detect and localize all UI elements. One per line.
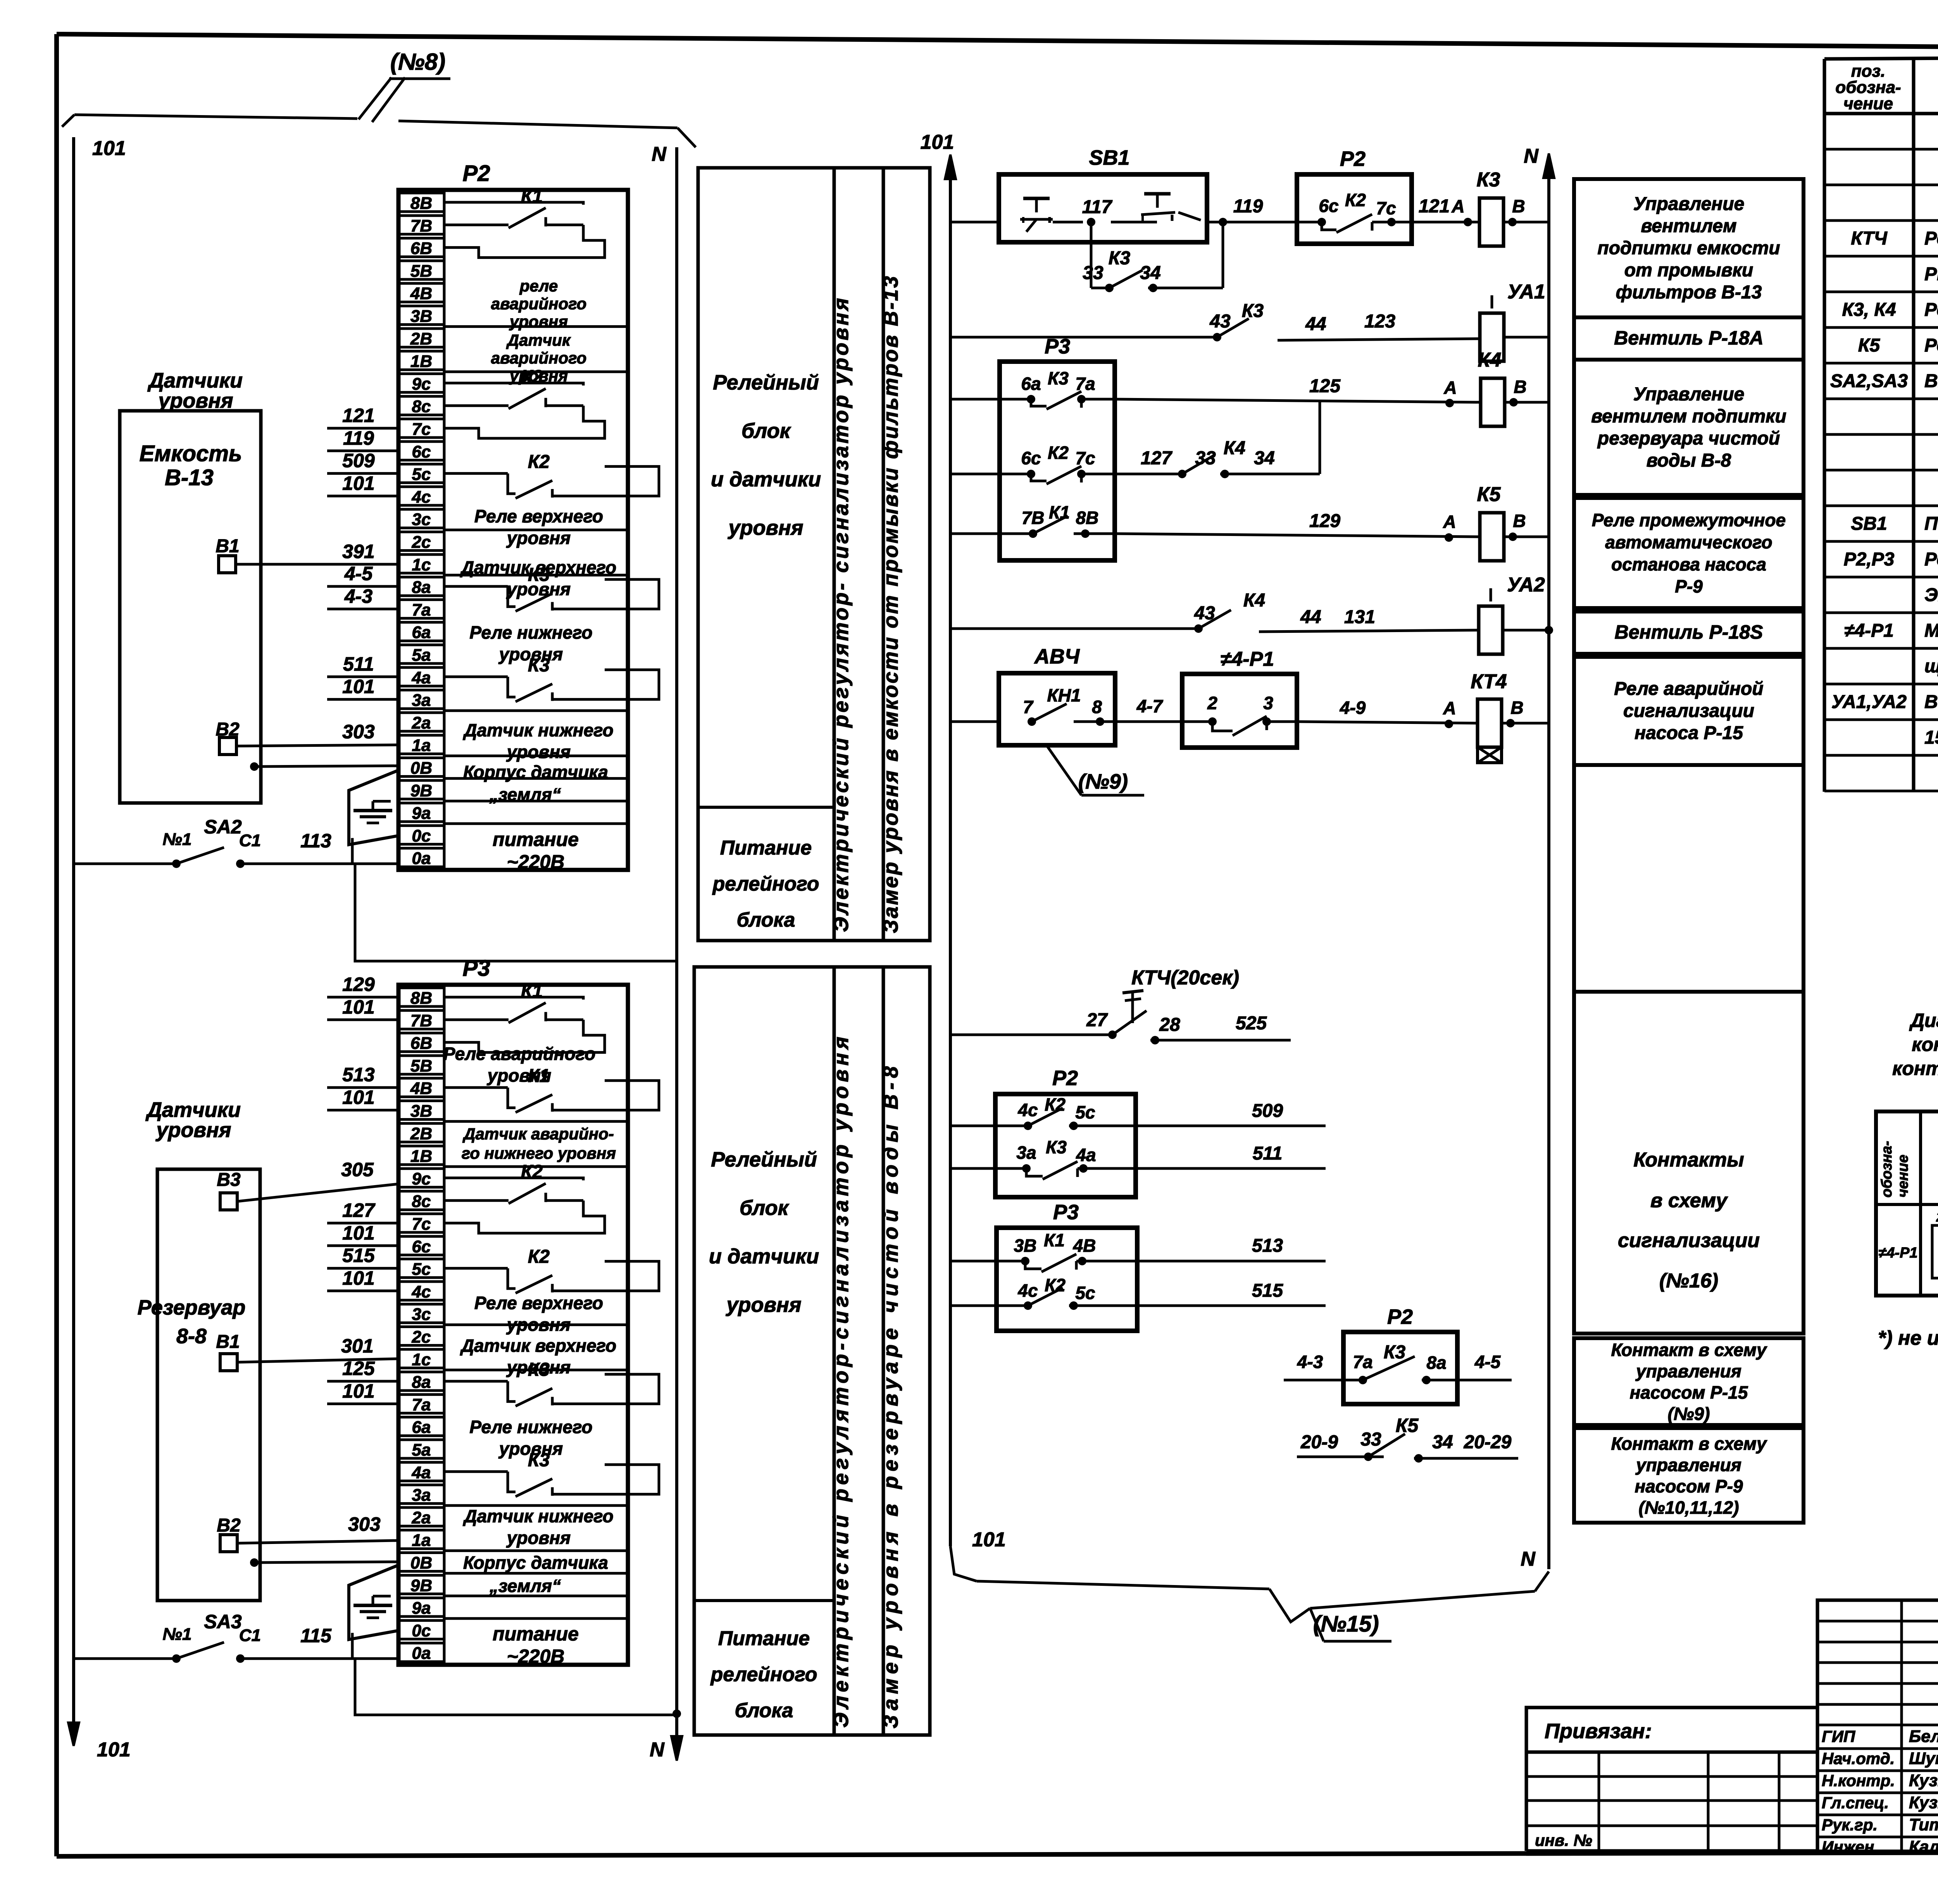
svg-text:вентилем: вентилем [1641, 216, 1737, 236]
svg-text:509: 509 [342, 450, 375, 472]
wire 121 A [1412, 196, 1472, 226]
svg-text:Реле нижнего: Реле нижнего [469, 1417, 592, 1437]
svg-text:уровня: уровня [506, 1315, 571, 1335]
svg-text:515: 515 [342, 1245, 375, 1266]
svg-text:(№16): (№16) [1659, 1270, 1718, 1292]
svg-text:129: 129 [1309, 511, 1340, 531]
svg-text:уровня: уровня [157, 389, 233, 412]
wire 121 [327, 405, 398, 428]
svg-text:509: 509 [1252, 1101, 1283, 1121]
svg-text:РКВ11-33-112УХЛЧ, 0...30сек, ~: РКВ11-33-112УХЛЧ, 0...30сек, ~220В [1924, 264, 1938, 284]
level sensors label (lower) [145, 1098, 241, 1142]
svg-text:К1: К1 [521, 186, 543, 207]
relay contact К1 [444, 186, 605, 257]
svg-text:4с: 4с [412, 1282, 431, 1301]
wire 515 [1137, 1280, 1326, 1306]
svg-text:303: 303 [342, 721, 375, 743]
svg-text:Белоус: Белоус [1909, 1727, 1938, 1746]
sensor B2 (lower) [217, 1513, 398, 1552]
svg-text:113: 113 [300, 830, 331, 852]
svg-text:сигнализации: сигнализации [1618, 1229, 1760, 1252]
svg-text:УА1,УА2: УА1,УА2 [1831, 692, 1907, 712]
svg-text:К1: К1 [1044, 1230, 1065, 1250]
svg-text:5В: 5В [410, 262, 432, 281]
svg-text:В3: В3 [217, 1170, 241, 1190]
wire 513 [327, 1064, 398, 1087]
svg-text:SA2: SA2 [204, 816, 241, 838]
svg-text:301: 301 [341, 1335, 373, 1357]
Р3 label питание [493, 1623, 579, 1667]
svg-text:6с: 6с [1021, 448, 1041, 468]
svg-text:N: N [650, 1739, 665, 1761]
Р3 label Датчик нижнего [462, 1506, 613, 1548]
relay contact К2 [444, 452, 659, 498]
svg-text:и датчики: и датчики [711, 468, 821, 491]
svg-text:≠4-Р1: ≠4-Р1 [1221, 648, 1274, 670]
svg-text:2: 2 [1207, 693, 1217, 713]
function box: Управление [1574, 360, 1804, 495]
svg-text:2а: 2а [412, 1508, 431, 1527]
svg-text:Р-9: Р-9 [1675, 576, 1703, 596]
function box: Реле аварийной [1574, 657, 1804, 765]
relay contact К2 [444, 367, 605, 438]
svg-text:0В: 0В [410, 759, 432, 778]
relay contact К2 [444, 1162, 605, 1233]
svg-text:8с: 8с [412, 1192, 431, 1211]
svg-text:33: 33 [1360, 1429, 1381, 1450]
svg-text:К3: К3 [528, 1450, 550, 1470]
svg-text:Питание: Питание [720, 837, 812, 859]
svg-text:Выключатель пакетный ПВ1-16,00: Выключатель пакетный ПВ1-16,00У3Б, исп. … [1924, 371, 1938, 391]
svg-text:5В: 5В [410, 1056, 432, 1075]
table row: Вентиль электромагнитный [1831, 692, 1938, 712]
svg-text:В: В [1514, 377, 1526, 397]
wire 513 [1137, 1235, 1326, 1261]
svg-text:Регулятор-сигнализатор уровня: Регулятор-сигнализатор уровня [1924, 549, 1938, 570]
svg-text:Датчик нижнего: Датчик нижнего [462, 720, 613, 740]
wire 119 [327, 427, 398, 451]
relay coil К4 [1478, 349, 1549, 426]
relay-sensor unit Р2 outline [398, 161, 628, 870]
svg-text:121: 121 [342, 405, 374, 426]
svg-text:№1: №1 [163, 1625, 192, 1644]
column bar: Замер уровня [879, 967, 930, 1735]
svg-text:УА1: УА1 [1507, 281, 1545, 303]
svg-text:уровня: уровня [155, 1118, 231, 1142]
ground symbol [353, 801, 392, 823]
svg-text:блок: блок [741, 419, 791, 443]
column bar: Замер уровня [879, 168, 930, 941]
svg-text:2с: 2с [412, 533, 431, 552]
wire 127 with contact К4 33-34 [1115, 402, 1320, 478]
wire 127 [327, 1199, 398, 1223]
function box: Контакт в схему [1574, 1338, 1804, 1425]
svg-text:3В: 3В [1014, 1235, 1037, 1256]
ground bracket [349, 1565, 398, 1640]
svg-text:4а: 4а [1076, 1145, 1096, 1165]
svg-text:101: 101 [342, 1267, 374, 1289]
ground bracket [349, 770, 398, 845]
svg-text:101: 101 [97, 1739, 131, 1761]
svg-text:511: 511 [343, 653, 374, 675]
svg-text:ГИП: ГИП [1822, 1727, 1855, 1745]
svg-text:Датчики: Датчики [145, 1098, 241, 1122]
relay-sensor unit Р3 outline [398, 956, 628, 1665]
svg-text:управления: управления [1635, 1455, 1741, 1475]
svg-text:5а: 5а [412, 646, 431, 665]
svg-text:С1: С1 [239, 831, 261, 850]
svg-text:К4: К4 [1478, 349, 1502, 371]
svg-text:119: 119 [1233, 196, 1263, 217]
Р2 terminal boxes [398, 193, 444, 868]
sensor common wire junction (lower) [250, 1558, 398, 1567]
svg-text:обозна-: обозна- [1879, 1141, 1895, 1198]
diagram header: Диаграмма замыкания контактов электроконтактного манометра [1892, 1010, 1938, 1079]
svg-text:К2: К2 [1345, 190, 1366, 210]
svg-text:7В: 7В [410, 1011, 432, 1030]
svg-text:511: 511 [1253, 1143, 1283, 1164]
svg-text:воды В-8: воды В-8 [1647, 450, 1731, 471]
return wire to bus N [355, 1659, 677, 1715]
svg-text:Р3: Р3 [463, 956, 490, 981]
svg-text:4с: 4с [412, 488, 431, 507]
svg-text:В: В [1513, 511, 1526, 531]
svg-text:*) не используется: *) не используется [1878, 1327, 1938, 1349]
wire 101 to SB1 [950, 221, 999, 224]
svg-text:УА2: УА2 [1507, 574, 1545, 596]
svg-text:6В: 6В [410, 239, 432, 258]
svg-text:1а: 1а [412, 1531, 431, 1550]
svg-text:А: А [1443, 377, 1457, 398]
sensor B2 (upper) [216, 719, 398, 755]
svg-text:33: 33 [1083, 263, 1103, 283]
svg-text:А: А [1443, 698, 1456, 718]
svg-text:7а: 7а [412, 600, 431, 619]
svg-text:Вентиль электромагнитный: Вентиль электромагнитный [1924, 692, 1938, 712]
bus 101 lower bend and label [950, 1528, 1006, 1581]
svg-text:К5: К5 [1477, 483, 1501, 506]
svg-text:Диаграмма замыкания: Диаграмма замыкания [1909, 1010, 1938, 1031]
relay contact К1 [444, 981, 605, 1052]
svg-text:К4: К4 [1243, 590, 1265, 611]
svg-text:К2: К2 [521, 367, 543, 388]
svg-text:К3: К3 [1046, 1137, 1067, 1157]
function box: Вентиль Р-18А [1574, 317, 1804, 360]
wire with contact К4 43-44 and wire 131 [950, 590, 1479, 633]
svg-text:515: 515 [1252, 1280, 1283, 1301]
svg-text:43: 43 [1194, 603, 1215, 624]
svg-text:Р2: Р2 [463, 161, 490, 186]
pressure gauge contact block ≠4-Р1 [1182, 648, 1297, 748]
svg-text:„земля“: „земля“ [489, 1576, 561, 1596]
wire 4-7 [1115, 696, 1182, 722]
contact state diagram in column 2 [1932, 1207, 1938, 1283]
Р3 label Реле нижнего [469, 1417, 592, 1459]
relay contact К3 [444, 655, 659, 701]
function box: Управление [1574, 179, 1804, 317]
svg-text:101: 101 [342, 1380, 374, 1402]
svg-text:Манометр показывающий сигнализ: Манометр показывающий сигнализирую- [1924, 620, 1938, 641]
svg-text:Контакт в схему: Контакт в схему [1611, 1340, 1767, 1360]
svg-text:7В: 7В [410, 216, 432, 235]
svg-text:34: 34 [1254, 448, 1274, 469]
svg-text:(№9): (№9) [1078, 770, 1128, 793]
svg-text:4В: 4В [410, 1079, 432, 1098]
svg-text:Привязан:: Привязан: [1545, 1720, 1652, 1743]
cable bundle marker (№8) [62, 49, 696, 147]
svg-text:525: 525 [1236, 1013, 1267, 1034]
svg-text:В-13: В-13 [165, 465, 214, 490]
svg-text:Вентиль Р-18S: Вентиль Р-18S [1615, 621, 1763, 643]
relay P2 contact box (lower) [950, 1067, 1136, 1197]
svg-text:8В: 8В [1076, 508, 1099, 528]
svg-text:подпитки емкости: подпитки емкости [1597, 238, 1780, 258]
svg-text:513: 513 [1252, 1235, 1283, 1256]
svg-text:3с: 3с [412, 510, 431, 529]
svg-text:3В: 3В [410, 307, 432, 326]
svg-text:0а: 0а [412, 849, 431, 868]
svg-text:КН1: КН1 [1047, 685, 1081, 705]
svg-text:0с: 0с [412, 1621, 431, 1640]
footnote not used [1878, 1327, 1938, 1349]
svg-text:43: 43 [1209, 311, 1231, 332]
wire 101 [327, 472, 398, 496]
svg-text:2а: 2а [412, 713, 431, 732]
svg-text:101: 101 [342, 472, 374, 494]
svg-text:уровня: уровня [725, 1293, 801, 1316]
svg-text:6В: 6В [410, 1034, 432, 1053]
svg-text:15кч888р СВМ , ~220В: 15кч888р СВМ , ~220В [1924, 727, 1938, 748]
table row: Манометр показывающий сигнализирую- [1844, 620, 1938, 641]
svg-text:и датчики: и датчики [709, 1245, 819, 1268]
svg-text:3а: 3а [1016, 1142, 1036, 1163]
bypass contact К3 33-34 under SB1 [1083, 218, 1227, 292]
svg-text:513: 513 [342, 1064, 375, 1086]
svg-text:Р2: Р2 [1387, 1305, 1413, 1328]
wire 509 [1136, 1101, 1326, 1126]
svg-text:ЭРСУ-4, ~220В: ЭРСУ-4, ~220В [1924, 585, 1938, 605]
svg-text:Резервуар: Резервуар [138, 1296, 246, 1319]
svg-text:К2: К2 [1048, 443, 1069, 463]
title block signature columns [1817, 1600, 1938, 1851]
svg-text:насосом Р-9: насосом Р-9 [1635, 1476, 1743, 1496]
svg-text:насоса Р-15: насоса Р-15 [1635, 723, 1743, 743]
Р2 label питание [493, 829, 579, 873]
svg-text:А: А [1443, 512, 1456, 532]
svg-text:уровня: уровня [506, 1528, 571, 1548]
wire 125 to К4 coil [1115, 376, 1480, 407]
svg-text:К3: К3 [1048, 368, 1069, 388]
svg-text:Контакт в схему: Контакт в схему [1611, 1434, 1767, 1454]
svg-text:Н.контр.: Н.контр. [1822, 1771, 1895, 1790]
table row: Пост управления ПКУ722-2У2, 1/2" [1851, 513, 1938, 534]
svg-text:127: 127 [342, 1199, 376, 1221]
svg-text:4-3: 4-3 [1297, 1352, 1323, 1372]
bus N (left schema) [650, 143, 682, 1761]
relay contact К1 [444, 1066, 659, 1112]
svg-text:Датчик верхнего: Датчик верхнего [460, 1335, 616, 1356]
svg-text:7с: 7с [1376, 198, 1396, 218]
svg-text:аварийного: аварийного [491, 295, 587, 313]
Р2 label Датчик верхнего [460, 557, 616, 599]
table row: щий ЭКМ-1У , 0...0,4МПа [1924, 656, 1938, 677]
function box: Вентиль Р-18S [1574, 612, 1804, 654]
svg-text:Вентиль Р-18А: Вентиль Р-18А [1614, 327, 1764, 349]
wire 101 [327, 996, 398, 1020]
svg-text:1с: 1с [412, 1350, 431, 1369]
svg-text:7а: 7а [1075, 374, 1095, 394]
wire 4-9 [1297, 698, 1479, 728]
Р2 label „земля“ [489, 784, 561, 805]
relay coil К3 [1468, 169, 1549, 246]
svg-text:101: 101 [972, 1528, 1006, 1551]
Р2 label Датчик нижнего [462, 720, 613, 762]
svg-text:8-8: 8-8 [176, 1325, 207, 1348]
svg-text:8с: 8с [412, 397, 431, 416]
svg-text:6а: 6а [1021, 374, 1041, 394]
callout (№9) under АВЧ [1047, 745, 1144, 795]
svg-text:щий ЭКМ-1У , 0...0,4МПа: щий ЭКМ-1У , 0...0,4МПа [1924, 656, 1938, 677]
svg-text:28: 28 [1159, 1015, 1180, 1035]
svg-text:101: 101 [342, 996, 374, 1018]
relay P3 contact box (lower) [950, 1201, 1137, 1331]
svg-text:9В: 9В [410, 781, 432, 800]
svg-text:1с: 1с [412, 555, 431, 574]
svg-text:К3: К3 [528, 655, 550, 675]
svg-text:6с: 6с [412, 1237, 431, 1256]
svg-text:1В: 1В [410, 1147, 432, 1166]
svg-text:В: В [1512, 196, 1525, 216]
svg-text:В1: В1 [216, 536, 239, 557]
svg-text:123: 123 [1364, 311, 1395, 332]
svg-text:SВ1: SВ1 [1089, 146, 1129, 169]
svg-text:129: 129 [342, 974, 375, 995]
svg-text:питание: питание [493, 1623, 579, 1645]
bus 101 (left schema) [68, 137, 131, 1761]
svg-text:Кузнецов: Кузнецов [1909, 1793, 1938, 1812]
svg-text:6с: 6с [412, 442, 431, 461]
svg-text:4-5: 4-5 [344, 563, 373, 584]
svg-text:К5: К5 [1858, 335, 1881, 356]
svg-text:8В: 8В [410, 989, 432, 1008]
svg-text:Реле аварийной: Реле аварийной [1614, 679, 1763, 699]
svg-text:8а: 8а [1426, 1353, 1446, 1373]
svg-text:управления: управления [1635, 1361, 1741, 1381]
push-button station SB1 [999, 146, 1207, 242]
svg-text:В2: В2 [217, 1515, 241, 1536]
wire 129 [327, 974, 398, 997]
function box (empty) [1574, 765, 1804, 992]
svg-text:101: 101 [92, 137, 126, 160]
svg-text:Гл.спец.: Гл.спец. [1822, 1794, 1889, 1812]
svg-text:Пост управления ПКУ722-2У2, 1/: Пост управления ПКУ722-2У2, 1/2" [1924, 513, 1938, 534]
tank Емкость В-13 box [120, 411, 261, 803]
svg-text:Реле ПЭ-37-42У3,4з+2р, ~220В: Реле ПЭ-37-42У3,4з+2р, ~220В [1924, 335, 1938, 356]
Р2 label Реле нижнего [469, 622, 592, 664]
svg-text:44: 44 [1300, 607, 1321, 627]
svg-text:44: 44 [1305, 314, 1326, 334]
svg-text:К4: К4 [1224, 438, 1245, 458]
svg-text:Реле промежуточное: Реле промежуточное [1592, 510, 1786, 530]
svg-text:Корпус датчика: Корпус датчика [463, 1552, 608, 1573]
svg-text:Р2,Р3: Р2,Р3 [1844, 549, 1895, 570]
svg-text:7с: 7с [412, 1215, 431, 1234]
solenoid valve coil УА1 [1480, 281, 1549, 361]
svg-text:Датчики: Датчики [147, 369, 243, 392]
svg-text:4В: 4В [1073, 1235, 1096, 1256]
feed branch to 0с [351, 1633, 354, 1658]
svg-text:инв. №: инв. № [1535, 1831, 1592, 1849]
svg-text:4-9: 4-9 [1340, 698, 1366, 718]
svg-text:6а: 6а [412, 623, 431, 642]
wire 101 [327, 1380, 398, 1404]
svg-text:N: N [1521, 1548, 1536, 1570]
svg-text:9В: 9В [410, 1576, 432, 1595]
Р3 section dividers [444, 1122, 628, 1619]
svg-text:(№8): (№8) [390, 49, 445, 75]
svg-text:9с: 9с [412, 374, 431, 393]
svg-text:КТЧ(20сек): КТЧ(20сек) [1131, 967, 1239, 989]
table row: 15кч888р СВМ , ~220В [1924, 727, 1938, 748]
svg-text:чение: чение [1843, 94, 1893, 113]
svg-text:вентилем подпитки: вентилем подпитки [1591, 406, 1786, 427]
column bar: Электрический регулятор-сигнализатор уровня [829, 967, 883, 1735]
svg-text:Реле верхнего: Реле верхнего [474, 1293, 603, 1313]
parts table grid [1824, 54, 1938, 792]
svg-text:(№9): (№9) [1668, 1404, 1710, 1424]
svg-text:К5: К5 [1396, 1415, 1419, 1436]
svg-text:аварийного: аварийного [491, 349, 587, 367]
table headers [1835, 62, 1938, 113]
column bar: Электрический регулятор-сигнализатор уровня [829, 168, 883, 941]
svg-text:блок: блок [740, 1196, 790, 1220]
wire with contact К3 43-44 and wire 123 [950, 301, 1480, 341]
svg-text:0В: 0В [410, 1554, 432, 1573]
svg-text:К3: К3 [1242, 301, 1264, 321]
svg-text:4-7: 4-7 [1136, 696, 1164, 716]
Р3 label Датчик аварийно- [462, 1125, 616, 1162]
svg-text:Электрический регулятор- сигна: Электрический регулятор- сигнализатор ур… [829, 296, 853, 932]
relay contact К2 [444, 1247, 659, 1293]
svg-text:уровня: уровня [509, 312, 568, 331]
relay coil К5 [1477, 483, 1549, 561]
svg-text:Р3: Р3 [1045, 335, 1070, 358]
svg-text:„земля“: „земля“ [489, 784, 561, 805]
svg-text:101: 101 [342, 1087, 374, 1108]
svg-text:чение: чение [1895, 1154, 1911, 1198]
svg-text:101: 101 [921, 131, 954, 153]
svg-text:SA3: SA3 [204, 1611, 241, 1633]
svg-text:4-3: 4-3 [344, 585, 372, 607]
relay contact К3 [444, 565, 659, 611]
svg-text:(№15): (№15) [1313, 1611, 1379, 1637]
switch SA2 and power wire 113 [74, 816, 398, 868]
svg-text:3а: 3а [412, 1486, 431, 1505]
svg-text:Емкость: Емкость [140, 441, 242, 466]
classification box Релейный блок [698, 168, 834, 941]
relay P2 contact box (bottom) [1284, 1305, 1512, 1404]
svg-text:20-9: 20-9 [1300, 1432, 1338, 1453]
svg-text:останова насоса: останова насоса [1611, 554, 1766, 574]
svg-text:Калмыков: Калмыков [1909, 1837, 1938, 1856]
table row: ЭРСУ-4, ~220В [1924, 585, 1938, 605]
svg-text:N: N [652, 143, 667, 165]
svg-text:Датчик нижнего: Датчик нижнего [462, 1506, 613, 1526]
svg-text:Реле комбинированное времени: Реле комбинированное времени [1924, 228, 1938, 249]
wire 101 [327, 676, 398, 700]
svg-text:125: 125 [342, 1358, 375, 1379]
svg-text:≠4-Р1: ≠4-Р1 [1878, 1245, 1917, 1261]
